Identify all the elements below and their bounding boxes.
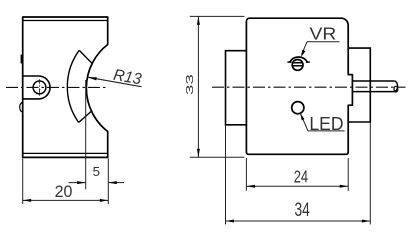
shaft/cable <box>352 81 394 92</box>
LED leader <box>300 113 308 131</box>
VR outer arc <box>290 57 308 62</box>
R13 leader <box>88 77 142 87</box>
svg-text:33: 33 <box>185 74 196 95</box>
LED underline <box>308 130 345 132</box>
svg-text:LED: LED <box>309 114 343 135</box>
dim 34 extension lines <box>225 125 227 225</box>
VR leader <box>302 42 308 55</box>
VR screw circle <box>292 60 303 71</box>
boss with rounded cap <box>23 76 50 99</box>
dim 20 extension lines <box>22 158 24 204</box>
boss right <box>348 48 370 122</box>
dim 24 extension lines <box>245 158 247 191</box>
dim 5 extension line <box>85 80 87 189</box>
VR underline <box>307 41 339 43</box>
centerline right view <box>212 86 406 88</box>
svg-text:34: 34 <box>295 199 310 221</box>
VR screw slot lines <box>292 63 303 66</box>
svg-text:20: 20 <box>55 183 73 201</box>
top rim inner line <box>23 20 108 22</box>
dim 5 line right part <box>108 182 124 184</box>
body outline right view with bump <box>246 18 352 154</box>
lens top connector <box>79 50 92 63</box>
dim 5 line left part <box>69 182 86 184</box>
body outline left view <box>23 17 108 157</box>
dim 34 line <box>226 220 371 222</box>
hole circle <box>33 81 46 94</box>
dim 33 line <box>197 16 199 157</box>
svg-text:VR: VR <box>310 23 337 43</box>
VR arc ticks <box>287 61 309 63</box>
tab lower (half ellipse) <box>20 103 23 112</box>
dim 20 line <box>23 199 109 201</box>
lens left arc <box>67 50 79 122</box>
flange left <box>226 51 247 125</box>
dim 33 extension lines <box>190 15 245 17</box>
main centerline left view <box>6 86 108 88</box>
hole vertical centerline <box>39 79 41 95</box>
LED circle <box>292 102 304 114</box>
svg-text:5: 5 <box>93 164 100 179</box>
lens bottom connector <box>79 111 92 123</box>
tab upper (filled) <box>21 55 23 64</box>
bottom rim inner line <box>23 152 108 154</box>
dim 24 line <box>246 185 348 187</box>
shaft end cap <box>394 81 397 92</box>
shaft end small circle <box>394 86 398 92</box>
svg-text:24: 24 <box>294 167 309 187</box>
